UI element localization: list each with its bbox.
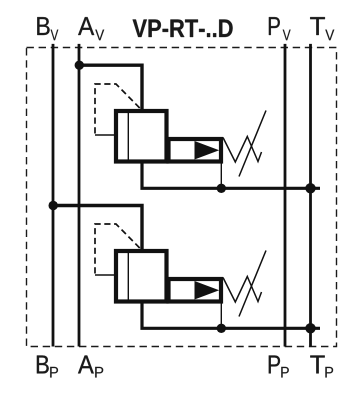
wire RV1 outlet to Tv: [142, 164, 320, 189]
RV2 spring: [223, 277, 262, 303]
port label Pv: [269, 17, 291, 40]
RV2 poppet box: [169, 279, 222, 302]
wire Bp to RV2 inlet: [53, 206, 142, 253]
junction dot RV1 drain: [217, 184, 226, 193]
title VP-RT-..D: [133, 19, 233, 37]
port line Pv-Pp: [284, 44, 287, 347]
relief valve RV2 (lower, on line B): [49, 201, 321, 334]
RV1 pilot line (dashed): [95, 84, 141, 134]
enclosure dashed border: [27, 48, 337, 347]
RV2 drain riser: [220, 304, 222, 329]
wire RV2 outlet to Tp: [142, 304, 320, 329]
port label Tp: [310, 356, 333, 378]
RV1 spring: [223, 137, 262, 163]
junction dot on Bp: [49, 201, 58, 210]
port label Av: [78, 17, 104, 40]
junction dot on Av: [75, 60, 84, 69]
port line Av-Ap: [78, 44, 81, 347]
junction dot on Tv: [305, 183, 315, 193]
port label Bp: [37, 356, 58, 378]
RV1 pilot connection: [95, 134, 115, 136]
RV1 adjustment arrow: [239, 111, 266, 177]
port label Tv: [310, 17, 334, 40]
wire Av to RV1 inlet: [79, 65, 142, 112]
RV1 flow arrow: [195, 141, 220, 160]
RV2 seat line: [127, 252, 129, 302]
junction dot RV2 drain: [217, 324, 226, 333]
port line Bv-Bp: [52, 44, 55, 347]
junction dot on Tp: [305, 323, 315, 333]
port label Bv: [37, 17, 58, 40]
RV2 pilot connection: [95, 274, 115, 276]
RV2 pilot line (dashed): [95, 224, 141, 274]
RV2 valve body: [116, 251, 167, 302]
relief valve RV1 (upper, on line A): [75, 60, 320, 193]
port label Pp: [269, 356, 289, 378]
port label Ap: [78, 356, 103, 378]
RV1 valve body: [116, 111, 167, 162]
RV1 poppet box: [169, 139, 222, 162]
RV1 seat line: [127, 112, 129, 162]
RV2 flow arrow: [195, 281, 220, 300]
RV2 adjustment arrow: [239, 251, 266, 317]
RV1 drain riser: [220, 164, 222, 189]
port line Tv-Tp: [309, 44, 312, 347]
